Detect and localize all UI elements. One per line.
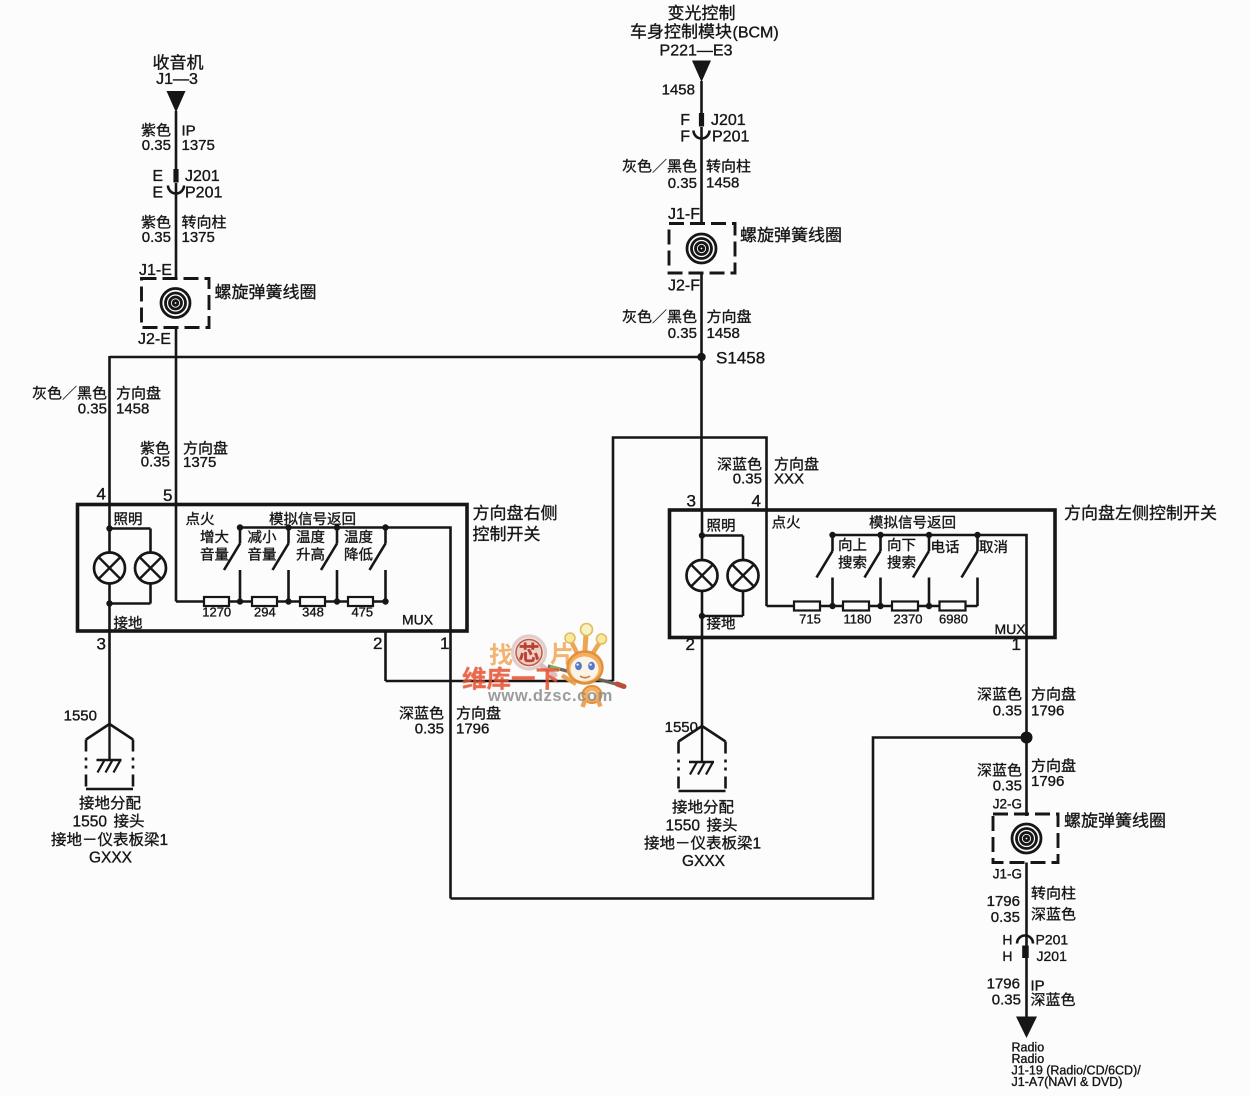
- watermark dzsc.com logo: [462, 624, 624, 708]
- svg-text:0.35: 0.35: [992, 992, 1021, 1009]
- svg-text:MUX: MUX: [402, 612, 434, 628]
- wire label 1550: [665, 719, 698, 736]
- label 照明 (illumination): [114, 512, 141, 525]
- switch label 取消: [980, 540, 1007, 553]
- resistor R8 6980: [940, 602, 966, 611]
- label 模拟信号返回 (analog signal return): [269, 512, 354, 525]
- wire label 1796 0.35: [987, 893, 1020, 926]
- switch label 温度升高: [297, 530, 325, 561]
- svg-text:294: 294: [254, 605, 276, 620]
- switch label 温度降低: [345, 530, 373, 561]
- svg-text:348: 348: [302, 605, 324, 620]
- component label 方向盘左侧控制开关: [1065, 505, 1217, 521]
- component label 方向盘右侧控制开关: [473, 505, 556, 542]
- svg-text:F: F: [680, 129, 690, 146]
- wire label 深蓝色 0.35: [978, 763, 1022, 795]
- svg-text:1180: 1180: [844, 612, 872, 627]
- switch SW4 温度降低 (temp down): [370, 528, 386, 602]
- component label 螺旋弹簧线圈: [741, 227, 841, 243]
- svg-text:J1-F: J1-F: [668, 206, 700, 223]
- wire pin 1 of S2 down to splice: [1025, 638, 1028, 817]
- coil spring box U-B (spiral cable): [669, 224, 735, 274]
- resistor R3 348: [300, 597, 325, 606]
- label 接地 (ground): [114, 616, 142, 629]
- svg-text:2370: 2370: [894, 612, 923, 627]
- label 照明 (illumination): [707, 519, 734, 532]
- svg-text:1796: 1796: [987, 893, 1020, 910]
- wire label 方向盘 1796: [1031, 758, 1075, 790]
- svg-text:J2-E: J2-E: [138, 331, 171, 348]
- wire 1796 steering column deep blue: [1025, 863, 1028, 1018]
- svg-text:0.35: 0.35: [142, 229, 171, 246]
- wire label 1550: [64, 708, 97, 725]
- svg-text:1: 1: [1012, 635, 1021, 654]
- svg-text:P201: P201: [1036, 932, 1069, 948]
- svg-text:1270: 1270: [202, 605, 231, 620]
- wire label 深蓝色 0.35: [400, 706, 444, 738]
- svg-text:E: E: [152, 185, 163, 202]
- wire label 1458: [662, 82, 695, 99]
- svg-text:1458: 1458: [116, 401, 149, 418]
- label 点火 (ignition): [186, 512, 214, 525]
- wire pin 1 of S1 down (1796 deep blue): [449, 631, 452, 899]
- connector J201 pin F (male): [680, 112, 746, 129]
- wire label 紫色 0.35: [142, 123, 171, 154]
- svg-text:1796: 1796: [1031, 703, 1064, 720]
- svg-text:3: 3: [97, 635, 106, 654]
- pin label J2-G: [993, 797, 1022, 812]
- svg-text:0.35: 0.35: [141, 454, 170, 471]
- wire label 灰色/黑色 0.35: [623, 159, 697, 192]
- coil spring box U-C (spiral cable): [993, 814, 1058, 863]
- label 点火 (ignition): [772, 515, 800, 528]
- switch SW5 向上搜索 (seek up): [817, 535, 833, 606]
- junction dots on resistor chain: [237, 598, 389, 604]
- wire label 方向盘 1796: [456, 706, 500, 738]
- svg-text:715: 715: [799, 612, 821, 627]
- svg-text:1550: 1550: [73, 814, 108, 831]
- svg-text:1796: 1796: [456, 721, 489, 738]
- switch SW8 取消 (cancel): [962, 535, 978, 606]
- component label 螺旋弹簧线圈: [215, 284, 315, 300]
- wire lamp stubs: [110, 529, 151, 554]
- off-page arrow from BCM P221-E3: [692, 61, 711, 83]
- wire label 转向柱 1375: [182, 215, 226, 246]
- value label 475: [351, 605, 373, 620]
- svg-text:J2-G: J2-G: [993, 797, 1022, 812]
- wire label 紫色 0.35: [142, 215, 171, 246]
- svg-text:0.35: 0.35: [78, 401, 107, 418]
- pin 4 label: [752, 492, 761, 511]
- svg-text:4: 4: [752, 492, 761, 511]
- pin 5 label: [163, 486, 172, 505]
- wire splice S1458 horizontal run: [110, 356, 702, 359]
- svg-text:P201: P201: [185, 185, 222, 202]
- switch label 向下搜索: [888, 538, 916, 569]
- label 接地 (ground): [707, 616, 735, 629]
- svg-text:1796: 1796: [1031, 773, 1064, 790]
- svg-text:0.35: 0.35: [991, 909, 1020, 926]
- svg-text:GXXX: GXXX: [89, 850, 133, 867]
- wire MUX join horizontal 1796: [386, 680, 614, 683]
- wire lamp stubs: [702, 536, 743, 561]
- svg-text:J1-A7(NAVI & DVD): J1-A7(NAVI & DVD): [1012, 1075, 1123, 1089]
- svg-text:475: 475: [351, 605, 373, 620]
- svg-text:1: 1: [160, 832, 169, 849]
- pin label J2-E: [138, 331, 171, 348]
- ground label 接地分配 1550 接头 接地-仪表板梁1 GXXX: [644, 799, 761, 870]
- svg-text:H: H: [1002, 932, 1012, 948]
- wire label IP 深蓝色: [1031, 978, 1075, 1007]
- wire 1458 steering wheel gray/black: [700, 272, 703, 511]
- value label 294: [254, 605, 276, 620]
- wire label 转向柱 1458: [706, 159, 750, 192]
- pin label J1-G: [993, 867, 1022, 882]
- wire 1375 steering column purple: [175, 183, 178, 279]
- wire 1375 IP purple (radio to J201): [175, 111, 178, 169]
- svg-text:IP: IP: [1031, 978, 1045, 995]
- svg-text:1375: 1375: [182, 229, 215, 246]
- switch SW1 增大音量 (volume up): [224, 528, 240, 602]
- resistor R1 1270: [204, 597, 229, 606]
- wire 1458 (BCM to J201): [700, 81, 703, 113]
- wire label 紫色 0.35: [141, 441, 170, 471]
- svg-text:0.35: 0.35: [668, 325, 697, 342]
- svg-text:2: 2: [686, 635, 695, 654]
- wire pin 2 to ground 1550: [701, 616, 704, 727]
- svg-text:J201: J201: [1037, 948, 1068, 964]
- value label 1180: [844, 612, 872, 627]
- off-page arrow from radio J1-3: [167, 91, 186, 113]
- svg-text:XXX: XXX: [774, 471, 804, 488]
- splice S1458: [697, 353, 705, 361]
- svg-text:1458: 1458: [707, 325, 740, 342]
- wire pin3 to lamp branch junction: [699, 510, 743, 539]
- switch SW7 电话 (phone): [913, 535, 929, 606]
- svg-text:0.35: 0.35: [668, 175, 697, 192]
- svg-text:S1458: S1458: [716, 349, 765, 368]
- pin 3 label: [687, 492, 696, 511]
- label 模拟信号返回 (analog signal return): [869, 515, 954, 528]
- junction dots on resistor chain: [829, 603, 932, 609]
- node label J1-3: [156, 71, 198, 88]
- component label 螺旋弹簧线圈: [1065, 812, 1165, 828]
- svg-text:1458: 1458: [662, 82, 695, 99]
- wire label 深蓝色 0.35: [978, 687, 1022, 720]
- svg-text:J201: J201: [185, 168, 220, 185]
- pin label J2-F: [668, 278, 700, 295]
- svg-text:1550: 1550: [666, 818, 701, 835]
- switch assembly S1 方向盘右侧控制开关 outline: [78, 505, 468, 632]
- connector P201 pin E (female): [152, 185, 222, 202]
- switch SW2 减小音量 (volume down): [273, 528, 289, 602]
- switch assembly S2 方向盘左侧控制开关 outline: [670, 510, 1056, 638]
- node label Radio J1-19 / J1-A7: [1012, 1041, 1142, 1090]
- pin 2 label: [373, 634, 382, 653]
- svg-text:0.35: 0.35: [993, 778, 1022, 795]
- wire lamps to ground join: [699, 591, 743, 619]
- wire label 1796 0.35: [987, 976, 1021, 1009]
- value label 1270: [202, 605, 231, 620]
- resistor R2 294: [252, 597, 277, 606]
- resistor R5 715: [794, 602, 820, 611]
- wire pin4 down to resistor chain: [767, 510, 978, 606]
- lamp L1 illumination: [94, 553, 125, 584]
- svg-text:1458: 1458: [706, 175, 739, 192]
- pin 2 label: [686, 635, 695, 654]
- wire label 方向盘 1796: [1031, 687, 1075, 720]
- wire pin 3 to ground 1550: [108, 604, 111, 726]
- resistor R6 1180: [843, 602, 869, 611]
- value label 715: [799, 612, 821, 627]
- wire label 深蓝色 0.35: [718, 457, 762, 488]
- node label S1458: [716, 349, 765, 368]
- junction dots on MUX bus: [829, 532, 980, 538]
- svg-text:1375: 1375: [183, 454, 216, 471]
- svg-text:0.35: 0.35: [733, 471, 762, 488]
- resistor R7 2370: [892, 602, 918, 611]
- svg-text:P201: P201: [712, 129, 749, 146]
- svg-text:1550: 1550: [64, 708, 97, 725]
- svg-text:J1-G: J1-G: [993, 867, 1022, 882]
- svg-text:1: 1: [753, 836, 762, 853]
- switch label 增大音量: [201, 530, 229, 561]
- connector J201 pin E (male): [152, 168, 219, 185]
- switch SW3 温度升高 (temp up): [321, 528, 337, 602]
- svg-text:MUX: MUX: [995, 621, 1027, 637]
- switch label 向上搜索: [839, 538, 867, 569]
- svg-text:1375: 1375: [182, 137, 215, 154]
- svg-text:F: F: [680, 112, 690, 129]
- lamp L3 illumination: [687, 560, 718, 591]
- svg-text:(BCM): (BCM): [733, 25, 779, 42]
- node label 收音机 (radio): [154, 54, 204, 70]
- wire label 方向盘 XXX: [774, 457, 818, 488]
- label MUX: [995, 621, 1027, 637]
- wire pin5 down to resistor chain: [176, 504, 386, 602]
- svg-text:www.dzsc.com: www.dzsc.com: [487, 687, 613, 705]
- pin 1 label: [1012, 635, 1021, 654]
- pin 3 label: [97, 635, 106, 654]
- wire label 方向盘 1375: [183, 441, 227, 471]
- svg-text:2: 2: [373, 634, 382, 653]
- switch label 减小音量: [248, 530, 276, 561]
- wire label IP 1375: [182, 123, 215, 155]
- ground G1 distribution 1550: [86, 724, 133, 789]
- node label 变光控制 (dimming control): [668, 5, 734, 21]
- resistor R4 475: [348, 597, 373, 606]
- switch label 电话: [932, 540, 959, 553]
- svg-text:4: 4: [97, 485, 106, 504]
- svg-text:0.35: 0.35: [993, 703, 1022, 720]
- wire label 方向盘 1458: [707, 309, 751, 342]
- wire label 灰色/黑色 0.35: [33, 386, 107, 418]
- value label 6980: [939, 612, 968, 627]
- wire lamps to ground join: [106, 584, 150, 607]
- wire 1458 branch down to pin 4 of right-side switch: [108, 356, 111, 505]
- value label 2370: [894, 612, 923, 627]
- pin 1 label: [440, 634, 449, 653]
- svg-text:J201: J201: [711, 112, 746, 129]
- ground label 接地分配 1550 接头 接地-仪表板梁1 GXXX: [51, 795, 168, 866]
- wire pin4 to lamp branch junction: [106, 504, 150, 532]
- node label 车身控制模块(BCM): [631, 23, 779, 41]
- coil antenna U-A coil spring box (spiral cable): [142, 279, 210, 328]
- pin label J1-F: [668, 206, 700, 223]
- svg-text:0.35: 0.35: [415, 721, 444, 738]
- value label 348: [302, 605, 324, 620]
- label MUX: [402, 612, 434, 628]
- ground G2 distribution 1550: [679, 726, 726, 791]
- junction dots on MUX bus: [237, 524, 389, 530]
- svg-text:6980: 6980: [939, 612, 968, 627]
- pin 4 label: [97, 485, 106, 504]
- wire MUX bus to pin 1: [833, 535, 1027, 638]
- svg-text:GXXX: GXXX: [682, 853, 726, 870]
- svg-text:J2-F: J2-F: [668, 278, 700, 295]
- wire MUX bus to pin 1: [240, 528, 451, 632]
- switch SW6 向下搜索 (seek down): [865, 535, 881, 606]
- connector P201 pin F (female): [680, 129, 749, 146]
- wire label 灰色/黑色 0.35: [623, 309, 697, 342]
- svg-text:E: E: [152, 168, 163, 185]
- wire label 方向盘 1458: [116, 386, 160, 418]
- svg-text:5: 5: [163, 486, 172, 505]
- connector P201 pin H (female): [1002, 932, 1068, 948]
- svg-text:3: 3: [687, 492, 696, 511]
- wire pin 2 of S1 down to MUX join: [384, 631, 387, 681]
- svg-text:P221—E3: P221—E3: [660, 43, 733, 60]
- wire 1458 steering column gray/black: [700, 127, 703, 224]
- wire deep blue XXX to pin 4 of left-side switch: [613, 438, 767, 682]
- wire label 转向柱 深蓝色: [1032, 886, 1076, 921]
- node label P221-E3: [660, 43, 733, 60]
- svg-text:0.35: 0.35: [142, 137, 171, 154]
- wire 1375 from coil spring to switch pin 5: [175, 327, 178, 505]
- svg-text:H: H: [1002, 948, 1012, 964]
- svg-text:J1—3: J1—3: [156, 71, 198, 88]
- pin label J1-E: [139, 262, 172, 279]
- connector J201 pin H (male): [1002, 946, 1067, 965]
- splice junction 1796: [1021, 732, 1033, 744]
- lamp L2 illumination: [135, 553, 166, 584]
- svg-text:1: 1: [440, 634, 449, 653]
- lamp L4 illumination: [728, 560, 759, 591]
- svg-text:J1-E: J1-E: [139, 262, 172, 279]
- wire 1796 routing to splice at right: [451, 738, 1027, 899]
- svg-text:1796: 1796: [987, 976, 1020, 993]
- off-page arrow to radio: [1016, 1017, 1037, 1039]
